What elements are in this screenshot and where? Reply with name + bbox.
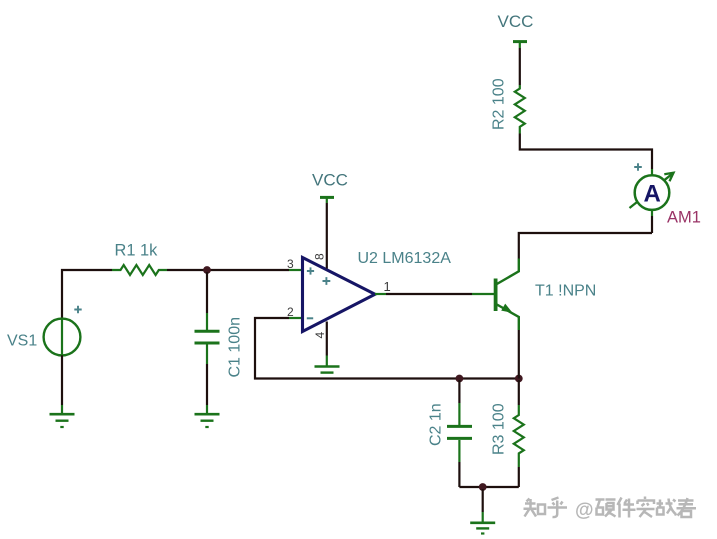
transistor T1 base stub xyxy=(472,293,494,295)
wire VCC to R2 xyxy=(519,48,521,85)
op-amp U2 pin 3 stub xyxy=(289,269,303,271)
wire ammeter bottom to collector xyxy=(651,216,653,233)
wire R3 top xyxy=(518,380,520,405)
wire C1 bottom xyxy=(206,364,208,405)
战 xyxy=(657,499,677,516)
wire C2 bottom xyxy=(458,462,460,487)
voltage source VS1 xyxy=(44,306,82,356)
ground below op-amp xyxy=(315,356,340,373)
svg-text:@: @ xyxy=(575,500,594,521)
svg-text:C2 1n: C2 1n xyxy=(428,403,445,446)
wire collector up and right to ammeter xyxy=(519,233,652,259)
wire emitter down to feedback node xyxy=(518,330,520,379)
wire input top from VS1 to R1 xyxy=(61,270,112,319)
ammeter AM1 xyxy=(630,163,674,216)
node junction at R1/C1 xyxy=(203,266,211,274)
wire op-amp pin 4 down xyxy=(326,322,328,356)
op-amp U2 triangle xyxy=(303,258,376,332)
capacitor C2 xyxy=(447,403,472,462)
wire R3 bottom xyxy=(518,467,520,487)
wire C1 top xyxy=(206,272,208,313)
乎 xyxy=(548,498,568,518)
硬 xyxy=(596,500,616,517)
ground below C1 xyxy=(195,405,220,427)
svg-text:VCC: VCC xyxy=(498,12,534,31)
wire R1 to op-amp pin 3 xyxy=(167,269,289,271)
wire feedback from pin 2 xyxy=(255,318,519,379)
resistor R1 xyxy=(112,265,167,275)
VCC power symbol above op-amp xyxy=(320,197,334,203)
transistor T1 xyxy=(496,259,519,331)
node ground tap xyxy=(479,483,487,491)
君 xyxy=(677,498,697,517)
wire VS1 bottom xyxy=(61,355,63,405)
svg-text:4: 4 xyxy=(313,332,327,339)
op-amp U2 pin 2 stub xyxy=(289,317,303,319)
svg-text:R1 1k: R1 1k xyxy=(115,242,159,260)
capacitor C1 xyxy=(195,313,220,364)
resistor R3 xyxy=(514,405,524,467)
svg-text:8: 8 xyxy=(313,253,327,260)
ground bottom xyxy=(470,512,495,534)
wire output to base xyxy=(386,293,472,295)
svg-text:C1 100n: C1 100n xyxy=(227,317,244,378)
svg-text:T1 !NPN: T1 !NPN xyxy=(535,282,596,299)
wire ground stem xyxy=(482,489,484,512)
VCC power symbol above R2 xyxy=(513,42,527,48)
op-amp output pin 1 stub xyxy=(375,293,386,295)
svg-text:U2 LM6132A: U2 LM6132A xyxy=(358,250,452,267)
wire R2 bottom to ammeter xyxy=(520,134,652,170)
svg-text:A: A xyxy=(644,180,661,207)
svg-text:VCC: VCC xyxy=(312,171,348,190)
node feedback/emitter xyxy=(515,375,523,383)
svg-text:3: 3 xyxy=(287,257,294,271)
svg-text:R3 100: R3 100 xyxy=(491,403,508,455)
wire bottom horizontal C2 to R3 xyxy=(459,486,518,488)
svg-text:VS1: VS1 xyxy=(7,333,37,350)
svg-text:1: 1 xyxy=(384,279,391,294)
svg-text:AM1: AM1 xyxy=(667,209,701,227)
wire VCC to op-amp pin 8 xyxy=(326,203,328,269)
svg-text:R2 100: R2 100 xyxy=(491,78,508,130)
resistor R2 xyxy=(515,85,525,134)
wire C2 top xyxy=(458,380,460,403)
实 xyxy=(637,497,655,518)
node feedback/C2 xyxy=(456,375,464,383)
知 xyxy=(524,499,537,517)
ground below VS1 xyxy=(50,405,75,427)
件 xyxy=(618,498,636,518)
watermark 知乎 @硬件实战君 xyxy=(524,498,568,518)
